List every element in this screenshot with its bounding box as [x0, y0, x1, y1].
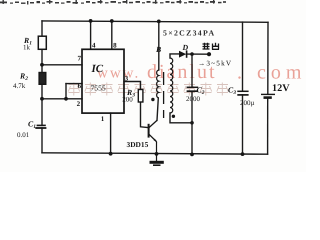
svg-text:D: D: [182, 43, 189, 52]
node R1-R2-pin7: [40, 63, 44, 67]
svg-text:→3~5kV: →3~5kV: [198, 59, 232, 67]
wire pin8: [111, 21, 113, 49]
transformer polarity dot primary: [151, 98, 154, 101]
ground: [150, 154, 164, 165]
resistor R2 body: [39, 73, 46, 85]
node rail-primary: [157, 20, 161, 24]
node diode-C2: [190, 52, 194, 56]
wire secondary top lead: [170, 54, 179, 58]
node rail-pin8: [110, 19, 114, 23]
svg-text:5×2CZ34PA: 5×2CZ34PA: [163, 28, 215, 37]
svg-text:1: 1: [101, 115, 105, 123]
transformer B primary winding: [157, 70, 159, 98]
transistor Q1 3DD15: [149, 120, 158, 153]
wire C1 to bottom rail: [41, 128, 43, 153]
svg-text:4.7k: 4.7k: [13, 82, 26, 90]
svg-text:7: 7: [78, 54, 82, 62]
wire secondary return: [170, 113, 192, 123]
svg-text:www.: www.: [97, 66, 140, 82]
resistor R1 body: [38, 36, 46, 49]
node output terminal: [207, 52, 211, 56]
svg-text:0.01: 0.01: [17, 131, 30, 139]
wire pin4: [90, 21, 92, 49]
wire R3 to base: [141, 102, 149, 128]
label shuchu (output): [203, 43, 220, 50]
wire pin1: [110, 113, 112, 154]
node rail-C3: [241, 152, 245, 156]
svg-text:2000: 2000: [186, 95, 201, 103]
IC U1 7555 box: [82, 49, 124, 113]
svg-text:3: 3: [125, 76, 129, 83]
wire pin7: [42, 64, 82, 66]
svg-text:B: B: [155, 45, 161, 54]
wire pin3 to R3: [124, 82, 141, 90]
wire C3 top lead: [242, 22, 244, 91]
wire diode to output: [187, 53, 210, 55]
wire primary top: [158, 22, 160, 71]
node rail-C2: [190, 153, 194, 157]
transformer polarity dot secondary: [172, 115, 175, 118]
svg-text:7555: 7555: [91, 84, 106, 93]
wire pin6-pin2 connector: [65, 84, 67, 99]
wire top rail: [42, 21, 268, 22]
svg-text:6: 6: [78, 82, 82, 90]
wire pin2: [42, 98, 82, 100]
resistor R3 body: [138, 90, 143, 103]
transformer core: [163, 72, 165, 118]
transformer B secondary winding: [170, 58, 173, 113]
wire C3 bottom lead: [242, 95, 244, 154]
svg-text:. com: . com: [237, 62, 306, 84]
diode D: [179, 50, 187, 57]
wire node B to C1: [41, 84, 43, 125]
wire primary bottom to collector: [157, 98, 158, 120]
watermark red www.dianlut.com: [97, 61, 306, 84]
wire pin6: [66, 83, 82, 85]
svg-text:200µ: 200µ: [240, 99, 255, 107]
node C2-secondary: [190, 121, 194, 125]
wire C2 top lead: [191, 54, 193, 87]
capacitor C2 plates: [187, 87, 199, 91]
svg-text:IC: IC: [91, 63, 104, 75]
svg-text:4: 4: [92, 42, 96, 50]
node rail-pin1: [109, 152, 113, 156]
battery 12V plates: [261, 94, 275, 97]
wire left rail top (to R1): [41, 21, 43, 36]
watermark gray chinese company row: [68, 83, 228, 96]
capacitor C1 plates: [35, 125, 46, 128]
svg-text:1k: 1k: [23, 44, 31, 52]
wire C2 bottom lead: [191, 91, 193, 154]
node pin6-pin2: [64, 97, 68, 101]
node rail-emitter: [155, 152, 159, 156]
main schematic ink: [42, 21, 268, 155]
wire R1 to node A: [41, 49, 43, 72]
svg-text:2: 2: [77, 100, 81, 108]
node rail-pin4: [89, 19, 93, 23]
cropped caption text fragments at top: [0, 0, 226, 5]
svg-text:8: 8: [113, 42, 117, 50]
wire bottom rail: [42, 153, 268, 154]
svg-text:12V: 12V: [272, 83, 290, 94]
svg-text:3DD15: 3DD15: [127, 140, 149, 149]
wire right branch 12V: [267, 22, 269, 94]
capacitor C3 plates: [237, 91, 248, 95]
svg-text:200: 200: [122, 95, 133, 103]
node R2-C1-pin2: [40, 97, 44, 101]
